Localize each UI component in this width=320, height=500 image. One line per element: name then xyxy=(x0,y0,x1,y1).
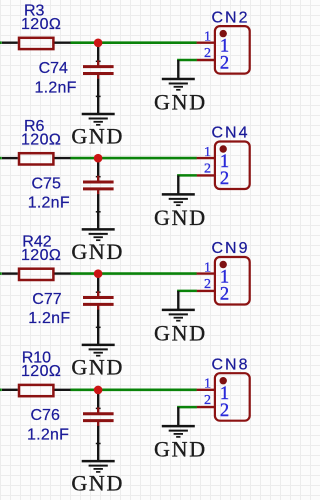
ground symbol below CN9 pin 2 xyxy=(162,310,195,321)
svg-text:1.2nF: 1.2nF xyxy=(28,310,70,327)
svg-text:1: 1 xyxy=(204,145,211,160)
wire R3 to CN2 pin 1 xyxy=(71,41,197,44)
svg-text:2: 2 xyxy=(204,277,211,292)
svg-text:GND: GND xyxy=(71,354,124,379)
svg-text:120Ω: 120Ω xyxy=(21,247,61,264)
wire CN8 pin 2 to ground xyxy=(177,407,197,426)
svg-text:1: 1 xyxy=(204,29,211,44)
ground symbol below CN2 pin 2 xyxy=(162,79,195,90)
wire R10 to CN8 pin 1 xyxy=(71,388,197,391)
svg-text:1.2nF: 1.2nF xyxy=(35,79,77,96)
svg-text:2: 2 xyxy=(220,285,229,305)
svg-text:120Ω: 120Ω xyxy=(21,16,61,33)
svg-text:2: 2 xyxy=(220,169,229,189)
wire R6 to CN4 pin 1 xyxy=(71,157,197,160)
capacitor C74 xyxy=(83,60,114,79)
svg-text:CN4: CN4 xyxy=(212,125,250,142)
wire junction down to C75 xyxy=(96,158,101,177)
wire (left edge net into R42) xyxy=(0,272,2,275)
svg-text:1.2nF: 1.2nF xyxy=(28,195,70,212)
svg-text:2: 2 xyxy=(220,401,229,421)
wire C75 to ground xyxy=(96,194,101,229)
svg-text:CN9: CN9 xyxy=(212,240,250,257)
wire (left edge net into R6) xyxy=(0,157,2,160)
resistor R42 xyxy=(2,269,71,280)
svg-text:CN2: CN2 xyxy=(212,9,250,26)
ground symbol below C77 xyxy=(82,345,115,356)
resistor R10 xyxy=(2,385,71,396)
svg-text:C75: C75 xyxy=(32,175,61,192)
capacitor C76 xyxy=(83,407,114,426)
wire C74 to ground xyxy=(96,79,101,114)
junction node at C76 tap xyxy=(94,386,103,395)
svg-text:GND: GND xyxy=(154,205,207,230)
wire junction down to C76 xyxy=(96,390,101,409)
ground symbol below CN4 pin 2 xyxy=(162,194,195,205)
svg-text:GND: GND xyxy=(71,239,124,264)
connector CN2 xyxy=(197,26,250,74)
wire junction down to C74 xyxy=(96,43,101,62)
svg-text:GND: GND xyxy=(154,320,207,345)
svg-text:C76: C76 xyxy=(31,407,60,424)
svg-text:GND: GND xyxy=(71,124,124,149)
wire R42 to CN9 pin 1 xyxy=(71,272,197,275)
wire junction down to C77 xyxy=(96,274,101,293)
svg-text:120Ω: 120Ω xyxy=(21,363,61,380)
wire (left edge net into R3) xyxy=(0,41,2,44)
svg-text:2: 2 xyxy=(204,46,211,61)
svg-text:GND: GND xyxy=(154,437,207,462)
ground symbol below C74 xyxy=(82,114,115,125)
capacitor C77 xyxy=(83,291,114,310)
svg-text:GND: GND xyxy=(154,90,207,115)
ground symbol below CN8 pin 2 xyxy=(162,426,195,437)
resistor R3 xyxy=(2,38,71,49)
wire (left edge net into R10) xyxy=(0,388,2,391)
connector CN4 xyxy=(197,142,250,190)
ground symbol below C76 xyxy=(82,461,115,472)
svg-text:C74: C74 xyxy=(39,60,68,77)
junction node at C77 tap xyxy=(94,269,103,278)
wire C77 to ground xyxy=(96,310,101,345)
svg-text:1: 1 xyxy=(204,260,211,275)
wire CN9 pin 2 to ground xyxy=(177,291,197,310)
svg-text:1.2nF: 1.2nF xyxy=(27,426,69,443)
connector CN9 xyxy=(197,257,250,305)
svg-text:2: 2 xyxy=(204,393,211,408)
junction node at C75 tap xyxy=(94,154,103,163)
resistor R6 xyxy=(2,153,71,164)
wire CN4 pin 2 to ground xyxy=(177,175,197,194)
svg-text:2: 2 xyxy=(220,54,229,74)
svg-text:C77: C77 xyxy=(32,291,61,308)
wire CN2 pin 2 to ground xyxy=(177,60,197,79)
svg-text:GND: GND xyxy=(71,471,124,496)
connector CN8 xyxy=(197,373,250,421)
wire C76 to ground xyxy=(96,426,101,461)
svg-text:2: 2 xyxy=(204,162,211,177)
capacitor C75 xyxy=(83,176,114,195)
svg-text:1: 1 xyxy=(204,377,211,392)
svg-text:CN8: CN8 xyxy=(212,356,250,373)
junction node at C74 tap xyxy=(94,39,103,48)
ground symbol below C75 xyxy=(82,229,115,240)
svg-text:120Ω: 120Ω xyxy=(21,131,61,148)
